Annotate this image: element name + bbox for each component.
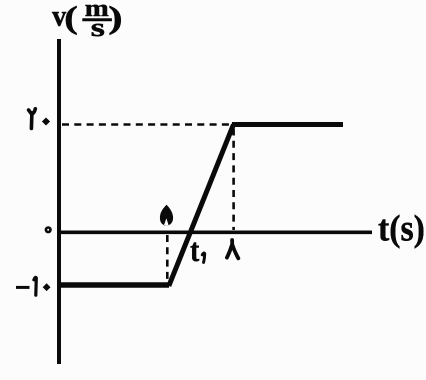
svg-text:(: ( <box>64 0 78 35</box>
origin label 0 <box>46 228 51 233</box>
dashed line t=8 <box>232 129 235 231</box>
dashed line t=5 <box>166 235 169 282</box>
label 20: digit 0 (Persian dot) <box>42 118 50 126</box>
label 5 (Persian) <box>160 205 173 226</box>
svg-text:t(s): t(s) <box>378 207 425 249</box>
fraction bar <box>82 18 112 21</box>
label -10: minus sign <box>16 286 30 289</box>
label 20: digit 2 (Persian) <box>29 109 36 129</box>
velocity curve rising segment <box>169 125 234 287</box>
label t1: subscript 1 (Persian) <box>202 253 204 262</box>
label -10: digit 0 (Persian dot) <box>43 283 51 291</box>
svg-text:): ) <box>108 1 122 36</box>
velocity curve segment v=-10 plateau <box>58 282 169 288</box>
dashed line v=20 <box>62 123 230 126</box>
svg-text:t: t <box>190 232 199 269</box>
x-axis t <box>57 230 372 234</box>
svg-text:s: s <box>91 13 105 42</box>
y-axis v <box>57 39 61 364</box>
velocity curve segment v=20 plateau <box>232 122 343 127</box>
label 8 (Persian) <box>227 240 238 258</box>
label -10: digit 1 (Persian) <box>34 277 36 295</box>
